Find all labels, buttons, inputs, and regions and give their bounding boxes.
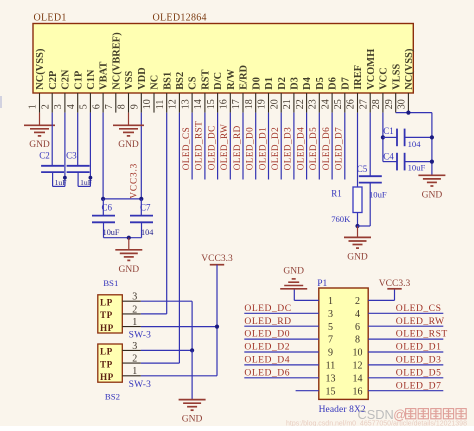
svg-text:13: 13	[180, 99, 191, 109]
svg-text:C2N: C2N	[61, 69, 72, 90]
svg-text:C2: C2	[39, 151, 50, 161]
svg-text:9: 9	[130, 104, 141, 109]
svg-text:VCC3.3: VCC3.3	[128, 163, 138, 199]
svg-text:IREF: IREF	[353, 65, 364, 90]
svg-text:1: 1	[328, 296, 333, 307]
svg-text:8: 8	[355, 335, 360, 346]
svg-text:OLED_RD: OLED_RD	[232, 125, 242, 170]
svg-text:6: 6	[355, 322, 360, 333]
svg-text:104: 104	[408, 139, 422, 149]
svg-text:3: 3	[132, 341, 137, 352]
svg-text:20: 20	[269, 99, 280, 109]
svg-text:1: 1	[132, 317, 137, 328]
svg-text:OLED1: OLED1	[34, 12, 67, 23]
svg-text:C1N: C1N	[86, 69, 97, 90]
svg-text:OLED_RW: OLED_RW	[219, 124, 229, 171]
svg-text:18: 18	[244, 99, 255, 109]
svg-text:29: 29	[384, 99, 395, 109]
svg-text:C7: C7	[140, 203, 151, 213]
svg-text:C3: C3	[66, 151, 77, 161]
svg-text:C6: C6	[102, 203, 113, 213]
svg-text:12: 12	[353, 361, 363, 372]
svg-text:VSS: VSS	[124, 70, 135, 89]
svg-text:VCC: VCC	[379, 67, 390, 90]
svg-text:HP: HP	[100, 323, 114, 333]
svg-text:21: 21	[282, 99, 293, 109]
svg-text:9: 9	[328, 348, 333, 359]
svg-text:OLED_D3: OLED_D3	[283, 127, 293, 170]
svg-text:3: 3	[132, 292, 137, 303]
svg-text:1uF: 1uF	[55, 178, 67, 187]
svg-text:104: 104	[141, 228, 153, 237]
svg-text:OLED_RD: OLED_RD	[244, 316, 291, 327]
svg-text:VDD: VDD	[137, 67, 148, 90]
svg-text:24: 24	[320, 99, 331, 109]
svg-text:OLED12864: OLED12864	[153, 12, 207, 23]
svg-text:OLED_CS: OLED_CS	[181, 127, 191, 170]
svg-text:14: 14	[193, 99, 204, 109]
svg-text:7: 7	[328, 335, 333, 346]
svg-text:GND: GND	[347, 252, 368, 262]
svg-text:SW-3: SW-3	[129, 331, 151, 341]
svg-text:OLED_RST: OLED_RST	[194, 121, 204, 171]
svg-text:760K: 760K	[331, 214, 351, 224]
svg-text:OLED_D5: OLED_D5	[396, 367, 442, 378]
svg-text:D0: D0	[251, 77, 262, 90]
svg-text:OLED_D4: OLED_D4	[295, 127, 305, 170]
svg-text:R1: R1	[331, 188, 342, 198]
svg-text:10: 10	[353, 348, 363, 359]
svg-text:12: 12	[168, 99, 179, 109]
svg-text:GND: GND	[182, 415, 203, 425]
svg-text:25: 25	[333, 99, 344, 109]
svg-text:5: 5	[328, 322, 333, 333]
svg-text:17: 17	[231, 99, 242, 109]
svg-text:LP: LP	[100, 297, 113, 307]
svg-text:19: 19	[257, 99, 268, 109]
svg-text:GND: GND	[118, 140, 139, 150]
svg-text:14: 14	[353, 373, 363, 384]
svg-text:2: 2	[355, 296, 360, 307]
svg-text:2: 2	[132, 304, 137, 315]
svg-text:VBAT: VBAT	[99, 62, 110, 90]
svg-text:15: 15	[326, 386, 336, 397]
svg-text:8: 8	[117, 104, 128, 109]
svg-text:10: 10	[142, 99, 153, 109]
svg-text:RST: RST	[201, 69, 212, 89]
svg-text:7: 7	[104, 104, 115, 109]
svg-text:OLED_D6: OLED_D6	[244, 367, 290, 378]
svg-text:NC(VSS): NC(VSS)	[404, 48, 415, 89]
svg-text:3: 3	[328, 309, 333, 320]
svg-text:11: 11	[326, 361, 336, 372]
svg-text:NC(VBREF): NC(VBREF)	[111, 32, 122, 90]
svg-text:OLED_D5: OLED_D5	[308, 127, 318, 170]
svg-text:OLED_RW: OLED_RW	[396, 316, 445, 327]
svg-text:VCOMH: VCOMH	[366, 49, 377, 90]
svg-text:BS1: BS1	[162, 72, 173, 90]
svg-text:VCC3.3: VCC3.3	[201, 254, 233, 264]
svg-text:OLED_D3: OLED_D3	[396, 355, 442, 366]
svg-text:16: 16	[219, 99, 230, 109]
svg-text:D5: D5	[315, 77, 326, 90]
svg-text:1uF: 1uF	[80, 178, 92, 187]
svg-text:3: 3	[53, 104, 64, 109]
svg-text:OLED_D6: OLED_D6	[321, 127, 331, 170]
svg-text:4: 4	[66, 104, 77, 109]
svg-text:OLED_DC: OLED_DC	[244, 303, 291, 314]
svg-text:P1: P1	[317, 279, 327, 289]
svg-text:E/RD: E/RD	[239, 65, 250, 90]
svg-text:D1: D1	[264, 77, 275, 90]
svg-text:6: 6	[91, 104, 102, 109]
svg-text:VLSS: VLSS	[391, 63, 402, 89]
svg-text:NC(VSS): NC(VSS)	[35, 48, 46, 89]
svg-text:SW-3: SW-3	[129, 380, 151, 390]
svg-text:OLED_D0: OLED_D0	[244, 329, 290, 340]
svg-text:BS2: BS2	[175, 72, 186, 90]
svg-text:OLED_D0: OLED_D0	[245, 127, 255, 170]
svg-text:OLED_D2: OLED_D2	[244, 342, 290, 353]
svg-text:BS2: BS2	[105, 392, 120, 402]
svg-text:23: 23	[308, 99, 319, 109]
svg-text:1: 1	[132, 366, 137, 377]
svg-text:C2P: C2P	[48, 71, 59, 90]
svg-text:10uF: 10uF	[369, 189, 387, 199]
svg-text:28: 28	[371, 99, 382, 109]
svg-text:GND: GND	[119, 265, 140, 275]
svg-text:HP: HP	[100, 372, 114, 382]
svg-text:D6: D6	[328, 77, 339, 90]
svg-text:5: 5	[79, 104, 90, 109]
svg-text:4: 4	[355, 309, 360, 320]
svg-text:OLED_RST: OLED_RST	[396, 329, 448, 340]
svg-text:OLED_D1: OLED_D1	[257, 127, 267, 170]
svg-text:R/W: R/W	[226, 68, 237, 89]
svg-text:C1: C1	[383, 126, 394, 136]
svg-text:C5: C5	[357, 164, 368, 174]
svg-text:13: 13	[326, 373, 336, 384]
svg-text:TP: TP	[100, 359, 113, 369]
svg-text:10uF: 10uF	[408, 163, 426, 173]
svg-text:1: 1	[28, 104, 39, 109]
svg-text:D3: D3	[290, 77, 301, 90]
svg-text:2: 2	[40, 104, 51, 109]
svg-text:OLED_D7: OLED_D7	[396, 380, 442, 391]
svg-text:TP: TP	[100, 310, 113, 320]
svg-text:VCC3.3: VCC3.3	[379, 279, 411, 289]
svg-text:C4: C4	[383, 152, 394, 162]
svg-text:NC: NC	[150, 75, 161, 90]
svg-text:22: 22	[295, 99, 306, 109]
svg-text:LP: LP	[100, 347, 113, 357]
svg-text:16: 16	[353, 386, 363, 397]
svg-text:27: 27	[358, 99, 369, 109]
svg-text:OLED_D7: OLED_D7	[334, 127, 344, 170]
svg-text:30: 30	[397, 99, 408, 109]
svg-text:OLED_D2: OLED_D2	[270, 127, 280, 170]
svg-text:OLED_D1: OLED_D1	[396, 342, 442, 353]
svg-text:GND: GND	[29, 140, 50, 150]
svg-text:OLED_DC: OLED_DC	[206, 125, 216, 170]
svg-text:2: 2	[132, 354, 137, 365]
svg-text:10uF: 10uF	[103, 228, 120, 237]
svg-text:11: 11	[155, 100, 166, 110]
svg-text:GND: GND	[422, 190, 443, 200]
svg-text:D7: D7	[340, 77, 351, 90]
svg-text:D/C: D/C	[213, 72, 224, 90]
svg-text:OLED_CS: OLED_CS	[396, 303, 442, 314]
svg-text:OLED_D4: OLED_D4	[244, 355, 290, 366]
svg-text:15: 15	[206, 99, 217, 109]
svg-text:htps:/blog.csdn.nel/m0_4657705: htps:/blog.csdn.nel/m0_46577050/article/…	[286, 420, 467, 426]
svg-text:D4: D4	[302, 77, 313, 90]
svg-text:CS: CS	[188, 76, 199, 90]
svg-text:26: 26	[346, 99, 357, 109]
svg-text:C1P: C1P	[73, 71, 84, 90]
svg-text:GND: GND	[283, 266, 304, 276]
svg-text:D2: D2	[277, 77, 288, 90]
svg-text:BS1: BS1	[103, 278, 118, 288]
